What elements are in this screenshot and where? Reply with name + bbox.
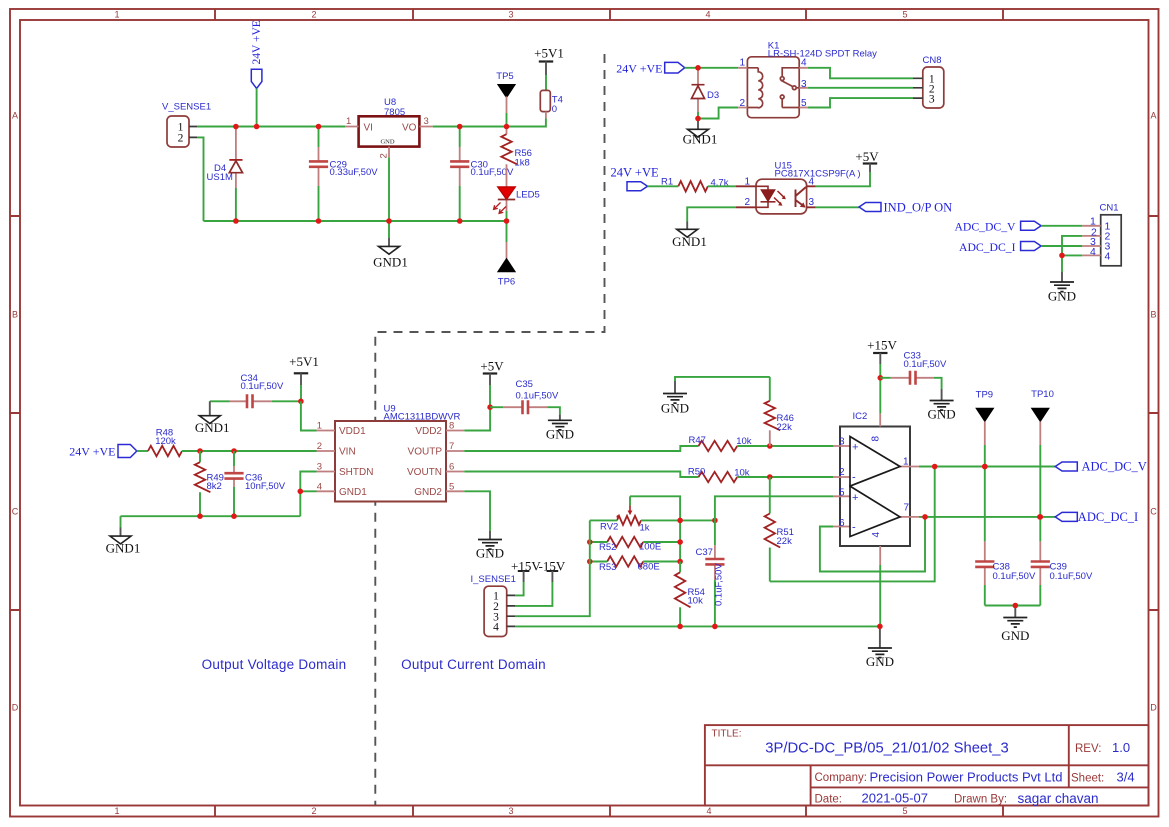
- svg-text:GND: GND: [1001, 628, 1029, 643]
- svg-text:GND2: GND2: [414, 487, 442, 498]
- resistor R1 4.7k: [661, 177, 729, 192]
- svg-text:LR-SH-124D SPDT Relay: LR-SH-124D SPDT Relay: [768, 48, 877, 59]
- svg-text:GND1: GND1: [195, 420, 230, 435]
- svg-text:+5V: +5V: [855, 149, 879, 164]
- wire 24V flag to rail: [256, 89, 258, 127]
- svg-text:IND_O/P ON: IND_O/P ON: [884, 201, 953, 215]
- svg-text:US1M: US1M: [207, 172, 233, 183]
- svg-text:5: 5: [839, 487, 845, 498]
- svg-text:VOUTP: VOUTP: [408, 447, 443, 458]
- svg-text:TP10: TP10: [1031, 389, 1054, 400]
- junction dots top rail: [233, 124, 239, 130]
- svg-text:ADC_DC_V: ADC_DC_V: [1082, 460, 1147, 474]
- svg-text:2: 2: [379, 153, 390, 158]
- svg-text:A: A: [1150, 111, 1156, 121]
- connector V_SENSE1: [162, 102, 211, 148]
- wire R1 to U15 pin1: [708, 185, 736, 187]
- svg-text:7: 7: [449, 441, 454, 452]
- svg-text:GND1: GND1: [683, 132, 718, 147]
- wire U9 SHTDN/GND1 to rail: [300, 472, 316, 517]
- svg-text:VI: VI: [364, 123, 373, 134]
- ground GND (C33): [928, 389, 956, 422]
- svg-text:REV:: REV:: [1075, 743, 1101, 755]
- svg-text:TP6: TP6: [498, 277, 515, 288]
- relay K1 LR-SH-124D: [738, 41, 877, 118]
- svg-text:5: 5: [902, 10, 907, 20]
- title block column divider rev/sheet: [1068, 725, 1070, 787]
- svg-text:ADC_DC_I: ADC_DC_I: [1078, 510, 1138, 524]
- power +15V (I_SENSE1): [511, 559, 541, 596]
- svg-text:GND: GND: [546, 427, 574, 442]
- svg-text:10k: 10k: [688, 595, 704, 606]
- svg-text:+: +: [852, 492, 858, 504]
- svg-text:3: 3: [317, 462, 322, 473]
- svg-text:7: 7: [904, 503, 910, 514]
- svg-text:+5V1: +5V1: [289, 354, 319, 369]
- svg-text:R1: R1: [661, 177, 673, 188]
- svg-text:4: 4: [705, 10, 710, 20]
- wire IC2 pin6 feedback: [820, 517, 925, 572]
- resistor R51 22k: [765, 477, 794, 581]
- capacitor C33: [880, 351, 947, 389]
- junction dot relay pin1: [695, 65, 701, 71]
- wire bottom rail left: [204, 220, 507, 222]
- net tag IND_O/P ON: [816, 201, 953, 215]
- svg-text:5: 5: [801, 98, 807, 109]
- svg-text:+: +: [852, 442, 858, 454]
- ground GND (IC2): [866, 629, 894, 669]
- junction dots VIN row: [197, 448, 203, 454]
- svg-text:GND: GND: [928, 407, 956, 422]
- svg-text:B: B: [1150, 310, 1156, 320]
- wire R51 feedback to IC2 out1: [770, 467, 935, 582]
- ground GND1 under U8: [373, 238, 408, 270]
- junction dot D3 bottom: [695, 116, 701, 122]
- svg-text:+5V1: +5V1: [534, 46, 564, 61]
- wire left column to I_SENSE1 pin3: [515, 520, 590, 616]
- wire D4 bottom: [235, 188, 237, 221]
- svg-text:Company:: Company:: [815, 772, 867, 784]
- svg-text:GND: GND: [380, 139, 394, 146]
- svg-text:4: 4: [493, 622, 499, 634]
- wire LED5 to rail: [506, 211, 508, 242]
- potentiometer RV2 1k: [600, 496, 650, 533]
- resistor R56 1k8: [501, 127, 532, 169]
- svg-text:4: 4: [871, 532, 882, 538]
- svg-text:120k: 120k: [155, 436, 176, 447]
- test point TP10: [1031, 389, 1054, 517]
- svg-text:I_SENSE1: I_SENSE1: [471, 574, 516, 585]
- svg-text:8k2: 8k2: [207, 481, 222, 492]
- capacitor C35: [490, 379, 560, 414]
- connector CN1: [1082, 203, 1121, 266]
- svg-text:2: 2: [311, 10, 316, 20]
- wire RV2 wiper loop: [630, 496, 680, 520]
- svg-text:3: 3: [424, 116, 429, 127]
- svg-text:C37: C37: [696, 547, 713, 558]
- wire U9 GND2 to GND: [464, 491, 490, 531]
- svg-text:CN8: CN8: [922, 55, 941, 66]
- svg-text:GND: GND: [661, 401, 689, 416]
- wire C38/C39 gnd link: [985, 605, 1041, 607]
- svg-text:2: 2: [311, 806, 316, 816]
- net tag ADC_DC_V (CN1): [954, 220, 1082, 233]
- svg-text:100E: 100E: [639, 542, 661, 553]
- svg-text:Date:: Date:: [815, 794, 843, 806]
- junction dot +5V1/C34: [298, 399, 304, 405]
- wire CN1 pin2 to GND net: [1062, 236, 1082, 272]
- svg-text:GND1: GND1: [339, 487, 367, 498]
- svg-text:LED5: LED5: [516, 190, 540, 201]
- resistor R48 120k: [148, 428, 182, 457]
- svg-text:VO: VO: [402, 123, 417, 134]
- svg-text:GND1: GND1: [373, 255, 408, 270]
- wire R47 to IC2 pin3: [737, 445, 833, 447]
- svg-text:2: 2: [745, 197, 751, 208]
- svg-text:GND1: GND1: [672, 234, 707, 249]
- svg-text:IC2: IC2: [853, 411, 868, 422]
- svg-text:D: D: [1150, 703, 1157, 713]
- svg-text:6: 6: [839, 518, 845, 529]
- junction dot CN1 gnd: [1059, 253, 1065, 259]
- svg-text:D: D: [12, 703, 19, 713]
- ground GND (CN1): [1048, 272, 1076, 304]
- svg-text:AMC1311BDWVR: AMC1311BDWVR: [384, 411, 461, 422]
- svg-text:2: 2: [839, 467, 845, 478]
- ground GND (U9 pin5): [476, 531, 504, 561]
- svg-text:+5V: +5V: [480, 359, 504, 374]
- svg-text:+15V: +15V: [867, 338, 897, 353]
- diode D4: [207, 127, 243, 189]
- wire R48 to U9 VIN: [182, 450, 317, 452]
- svg-text:1: 1: [903, 457, 909, 468]
- svg-text:0.1uF,50V: 0.1uF,50V: [904, 359, 947, 370]
- capacitor C34: [210, 373, 301, 409]
- svg-text:Output Voltage Domain: Output Voltage Domain: [202, 657, 347, 672]
- capacitor C38: [975, 467, 1036, 606]
- wire U8 VO rail: [433, 119, 546, 127]
- wire U15 pin2 to GND1: [687, 207, 736, 221]
- net tag ADC_DC_I (IC2): [1055, 510, 1138, 524]
- svg-text:R47: R47: [688, 435, 705, 446]
- regulator U8 7805: [345, 97, 432, 159]
- net tag 24V +VE (R48): [69, 444, 148, 458]
- diode D3: [692, 71, 720, 113]
- wire U9 VDD2 to +5V: [464, 407, 490, 430]
- power -15V (I_SENSE1): [515, 559, 566, 606]
- wire U9 VOUTP to R47: [464, 446, 698, 451]
- svg-text:22k: 22k: [777, 422, 793, 433]
- svg-text:TITLE:: TITLE:: [712, 729, 742, 740]
- svg-text:3P/DC-DC_PB/05_21/01/02 Sheet_: 3P/DC-DC_PB/05_21/01/02 Sheet_3: [765, 741, 1008, 757]
- wire 24V tag to relay pin1: [685, 67, 739, 69]
- svg-text:3: 3: [809, 197, 815, 208]
- svg-text:2: 2: [317, 441, 322, 452]
- power +5V (C35): [480, 359, 504, 408]
- LED LED5: [494, 164, 540, 213]
- resistor R46 22k: [765, 377, 794, 446]
- wire gnd rail (R49/C36): [121, 515, 301, 517]
- optocoupler U15 PC817: [736, 161, 861, 214]
- resistor R53 680E: [599, 556, 660, 573]
- svg-text:VOUTN: VOUTN: [407, 467, 442, 478]
- wire bottom rail (I_SENSE1 pin4 to IC2 pin4): [515, 625, 880, 627]
- svg-text:CN1: CN1: [1099, 203, 1118, 214]
- connector CN8: [913, 55, 944, 108]
- wire RV2 right to C37: [641, 519, 715, 521]
- wire CN1 pin4 to GND net: [1062, 254, 1082, 256]
- wire RV2 left: [590, 519, 617, 521]
- svg-text:ADC_DC_V: ADC_DC_V: [954, 220, 1016, 233]
- svg-text:PC817X1CSP9F(A ): PC817X1CSP9F(A ): [775, 169, 861, 180]
- svg-text:B: B: [12, 310, 18, 320]
- wire U8 pin2 to GND1: [388, 157, 390, 238]
- junction dot TP10/ADC_DC_I: [1038, 514, 1044, 520]
- svg-text:3: 3: [801, 79, 807, 90]
- svg-text:24V +VE: 24V +VE: [251, 20, 263, 64]
- svg-text:4: 4: [706, 806, 711, 816]
- svg-text:VDD2: VDD2: [415, 426, 442, 437]
- wire C37 top to IC2 pin5: [715, 496, 833, 520]
- svg-text:4: 4: [1105, 250, 1111, 262]
- svg-text:Output Current Domain: Output Current Domain: [401, 657, 546, 672]
- svg-text:5: 5: [449, 481, 454, 492]
- svg-text:GND: GND: [866, 654, 894, 669]
- svg-text:3: 3: [839, 437, 845, 448]
- svg-text:3: 3: [508, 806, 513, 816]
- svg-text:GND: GND: [1048, 289, 1076, 304]
- connector I_SENSE1: [471, 574, 516, 637]
- test point TP9: [976, 390, 994, 467]
- svg-text:0.33uF,50V: 0.33uF,50V: [330, 167, 379, 178]
- title block column divider company: [810, 765, 812, 805]
- svg-text:24V +VE: 24V +VE: [611, 166, 660, 180]
- svg-text:-: -: [852, 522, 856, 534]
- wire +15V to IC2 pin8: [879, 378, 881, 414]
- power flag 24V +VE (top): [251, 20, 263, 88]
- capacitor C36: [224, 451, 285, 516]
- ground GND1 (bottom left): [106, 516, 141, 555]
- ground GND1 (C34): [195, 401, 230, 435]
- svg-text:-: -: [852, 471, 856, 483]
- wire relay pin3 to CN8 pin2: [808, 87, 913, 89]
- resistor R49 8k2: [195, 451, 224, 516]
- junction dot TP9/ADC_DC_V: [982, 464, 988, 470]
- wire IC2 pin4 to rail / GND: [879, 565, 881, 626]
- svg-text:C35: C35: [516, 379, 533, 390]
- test point TP6: [498, 242, 515, 288]
- svg-text:ADC_DC_I: ADC_DC_I: [959, 241, 1016, 254]
- resistor R54 10k: [675, 562, 705, 627]
- wire RV2/R52/R53 right column: [679, 520, 681, 561]
- capacitor C37: [696, 520, 725, 626]
- net tag 24V +VE (relay): [616, 61, 684, 75]
- svg-text:D3: D3: [707, 90, 719, 101]
- svg-text:680E: 680E: [638, 562, 660, 573]
- svg-text:R50: R50: [688, 467, 705, 478]
- svg-text:2021-05-07: 2021-05-07: [862, 791, 929, 806]
- ground GND1 (relay): [683, 121, 718, 147]
- svg-text:1.0: 1.0: [1112, 740, 1130, 755]
- wire IC2 out1 (ADC_DC_V net): [919, 466, 1055, 468]
- wire +5V1 to U9 VDD1: [301, 401, 317, 430]
- svg-text:1: 1: [114, 806, 119, 816]
- capacitor C29: [309, 127, 378, 222]
- wire IC2 out7 (ADC_DC_I net): [919, 516, 1055, 518]
- wire U15 pin4 to +5V: [816, 172, 870, 186]
- svg-text:1: 1: [346, 116, 351, 127]
- svg-text:Precision Power Products Pvt L: Precision Power Products Pvt Ltd: [870, 770, 1063, 785]
- svg-text:4: 4: [317, 481, 322, 492]
- ground GND (R46): [661, 377, 770, 416]
- net tag ADC_DC_I (CN1): [959, 241, 1082, 254]
- power +5V1 (top): [534, 46, 564, 91]
- ground GND (C38/C39): [1001, 608, 1029, 643]
- svg-text:7805: 7805: [384, 107, 405, 118]
- svg-text:Drawn By:: Drawn By:: [954, 794, 1007, 806]
- test point TP5: [496, 71, 515, 126]
- wire V_SENSE1 pin2 down: [197, 137, 204, 221]
- svg-text:V_SENSE1: V_SENSE1: [162, 102, 211, 113]
- domain separator dashed line: [375, 54, 604, 806]
- svg-text:6: 6: [449, 462, 454, 473]
- frame row ticks right: [1149, 216, 1159, 610]
- svg-text:2: 2: [740, 98, 746, 109]
- svg-text:SHTDN: SHTDN: [339, 467, 373, 478]
- svg-text:GND1: GND1: [106, 541, 141, 556]
- svg-text:GND: GND: [476, 546, 504, 561]
- wire R52 row: [590, 541, 680, 543]
- svg-text:RV2: RV2: [600, 521, 618, 532]
- wire R50 to IC2 pin2: [737, 476, 833, 478]
- svg-text:0.1uF,50V: 0.1uF,50V: [471, 167, 514, 178]
- opamp IC2: [833, 411, 919, 565]
- svg-text:24V +VE: 24V +VE: [616, 61, 662, 75]
- svg-text:3: 3: [929, 93, 935, 105]
- power +5V (opto): [855, 149, 879, 172]
- isolation amp U9 AMC1311BDWVR: [317, 404, 465, 502]
- svg-text:R52: R52: [599, 542, 616, 553]
- title block row divider 1: [705, 764, 1149, 766]
- wire relay pin5 to CN8 pin3: [808, 98, 913, 107]
- frame column ticks top: [215, 9, 1003, 20]
- svg-text:2: 2: [178, 133, 184, 145]
- title block outline: [705, 725, 1149, 805]
- svg-text:TP5: TP5: [496, 71, 513, 82]
- capacitor C30: [450, 127, 514, 222]
- svg-text:8: 8: [871, 436, 882, 442]
- resistor R50 10k: [688, 467, 750, 483]
- fuse T4 0: [540, 90, 563, 118]
- svg-text:1: 1: [745, 177, 751, 188]
- junction dots bottom rail: [233, 218, 239, 224]
- wire D3 bottom to relay pin2: [698, 108, 738, 119]
- svg-text:0: 0: [552, 104, 557, 115]
- title block row divider 2: [811, 786, 1149, 788]
- wire relay pin4 to CN8 pin1: [808, 68, 913, 79]
- power +15V (C33): [867, 338, 897, 378]
- svg-text:1: 1: [317, 421, 322, 432]
- svg-text:1: 1: [740, 58, 746, 69]
- svg-text:0.1uF,50V: 0.1uF,50V: [993, 571, 1036, 582]
- svg-text:Sheet:: Sheet:: [1071, 773, 1104, 785]
- frame column ticks bottom: [215, 806, 1003, 817]
- svg-text:R53: R53: [599, 562, 616, 573]
- svg-text:A: A: [12, 111, 18, 121]
- resistor R47 10k: [688, 435, 751, 451]
- net tag 24V +VE (opto): [611, 166, 660, 191]
- svg-text:TP9: TP9: [976, 390, 993, 401]
- svg-text:3/4: 3/4: [1117, 770, 1135, 785]
- svg-text:0.1uF,50V: 0.1uF,50V: [516, 390, 559, 401]
- wire R53 row: [590, 561, 680, 563]
- svg-text:sagar chavan: sagar chavan: [1018, 791, 1099, 806]
- svg-text:22k: 22k: [777, 536, 793, 547]
- wire V_SENSE1 pin1 rail: [197, 126, 345, 128]
- power +5V1 (C34): [289, 354, 319, 401]
- svg-text:0.1uF,50V: 0.1uF,50V: [241, 381, 284, 392]
- svg-text:5: 5: [902, 806, 907, 816]
- svg-text:3: 3: [508, 10, 513, 20]
- net tag ADC_DC_V (IC2): [1055, 460, 1147, 474]
- frame row ticks left: [10, 216, 20, 610]
- svg-text:VIN: VIN: [339, 447, 356, 458]
- ground GND (C35): [546, 414, 574, 441]
- svg-text:C: C: [12, 507, 19, 517]
- svg-text:1k: 1k: [640, 522, 650, 533]
- ground GND1 (opto): [672, 222, 707, 250]
- svg-text:4: 4: [1090, 246, 1096, 258]
- svg-text:1: 1: [114, 10, 119, 20]
- svg-text:1k8: 1k8: [515, 158, 530, 169]
- svg-text:VDD1: VDD1: [339, 426, 366, 437]
- wire U9 VOUTN to R50: [464, 472, 698, 478]
- wire tag to R1: [648, 185, 679, 187]
- svg-text:0.1uF,50V: 0.1uF,50V: [1050, 571, 1093, 582]
- svg-text:24V +VE: 24V +VE: [69, 444, 115, 458]
- resistor R52 100E: [599, 537, 661, 553]
- svg-text:C: C: [1150, 507, 1157, 517]
- svg-text:10nF,50V: 10nF,50V: [245, 481, 286, 492]
- svg-text:0.1uF,50V: 0.1uF,50V: [714, 563, 725, 606]
- capacitor C39: [1031, 517, 1093, 606]
